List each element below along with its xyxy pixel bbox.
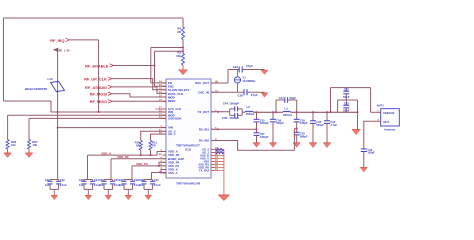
wire RF_UP_CLK xyxy=(112,79,166,90)
wire C43 upper stub xyxy=(345,100,347,105)
wire B2 upper xyxy=(272,112,274,119)
svg-text:ASK/OOK: ASK/OOK xyxy=(168,117,182,121)
capacitor pair C27 C28 xyxy=(124,179,133,181)
ground R67 xyxy=(25,153,33,158)
wire jog right at y=101 xyxy=(4,100,52,102)
wire VSS bus vertical xyxy=(223,150,225,196)
svg-text:RF_MISO: RF_MISO xyxy=(90,99,107,104)
wire R3 to power arrow xyxy=(182,65,184,70)
wire C44 C46 join right xyxy=(241,109,243,115)
wire R66 to ground xyxy=(7,149,9,153)
svg-text:VDD_RF: VDD_RF xyxy=(117,155,129,159)
svg-text:1uF: 1uF xyxy=(99,183,104,187)
wire OSC_IN row xyxy=(211,91,244,93)
svg-text:TRF7970ARGVR: TRF7970ARGVR xyxy=(176,181,201,185)
wire top net from frame corner to R4 xyxy=(4,17,184,19)
wire loop top left xyxy=(276,99,285,101)
svg-text:RF_IRQ: RF_IRQ xyxy=(50,38,64,43)
wire inner loop right xyxy=(357,100,359,112)
wire VDD_A bus xyxy=(88,154,158,156)
junction node EN2 xyxy=(182,50,184,52)
svg-text:680pF: 680pF xyxy=(300,135,308,139)
connector ANT1 box xyxy=(381,109,400,126)
resistor R9 on AG stub xyxy=(216,151,224,154)
wire C37 upper stub xyxy=(345,88,347,92)
svg-text:RX_IN1: RX_IN1 xyxy=(199,127,210,131)
wire R10 to VDD_A bus xyxy=(140,150,142,155)
ground B3 xyxy=(293,143,300,148)
wire B1 upper xyxy=(256,112,258,119)
junction R10 xyxy=(140,154,142,156)
wire R4 to node xyxy=(182,40,184,54)
wire B1 lower xyxy=(256,135,258,142)
wire RF_ENABLE xyxy=(114,65,155,67)
wire IRQ bus xyxy=(51,111,166,113)
capacitor C35 xyxy=(254,118,260,120)
ground crystal top xyxy=(261,70,268,74)
ground antenna node xyxy=(352,130,361,135)
junction ground drop xyxy=(357,111,359,113)
svg-text:RF_UP_CLK: RF_UP_CLK xyxy=(84,77,107,82)
svg-text:100pF: 100pF xyxy=(367,151,375,155)
resistor R3 xyxy=(182,54,185,66)
ground B2 xyxy=(270,143,277,148)
wire EN2 rail to pin xyxy=(155,85,167,87)
svg-text:1uF: 1uF xyxy=(79,183,84,187)
svg-text:4.7pF: 4.7pF xyxy=(330,123,337,127)
capacitor C44 xyxy=(234,106,236,111)
U1 left pin stubs and numbers xyxy=(163,82,167,84)
svg-text:C37: C37 xyxy=(344,88,350,92)
junction RF_ENABLE to EN2 rail xyxy=(154,65,156,67)
wire R66 stub xyxy=(7,115,9,139)
capacitor C34 xyxy=(238,67,240,73)
wire B2 lower xyxy=(272,122,274,143)
wire C43 lower stub xyxy=(345,108,347,112)
svg-text:2: 2 xyxy=(377,117,379,121)
wire RX_IN1 xyxy=(211,128,257,130)
resistor R67 xyxy=(28,140,31,150)
svg-text:C29: C29 xyxy=(139,178,144,182)
wire B1 middle xyxy=(256,122,258,133)
wire inner loop top xyxy=(338,99,358,101)
capacitor C45 xyxy=(294,131,300,133)
ground B5 xyxy=(323,143,331,148)
junction BAND_GAP xyxy=(158,165,160,167)
wire VDD_X drop to C pair5 xyxy=(151,173,153,180)
svg-text:VDD_PA: VDD_PA xyxy=(136,162,149,166)
wire RF_IRQ horizontal xyxy=(70,39,99,41)
junction RX_IN1 tap xyxy=(256,128,258,130)
svg-text:450nH: 450nH xyxy=(246,112,255,116)
svg-text:C27: C27 xyxy=(119,178,124,182)
wire EN rail to pin xyxy=(151,82,166,84)
wire main line after L2 xyxy=(253,111,283,113)
vertical EN2 rail xyxy=(154,51,156,86)
svg-text:TX_PA2: TX_PA2 xyxy=(199,169,209,173)
wire RF_1_8V vertical rail xyxy=(57,52,59,180)
wire outer loop top xyxy=(331,87,371,89)
capacitor pair C25 C26 xyxy=(104,179,113,181)
pin 1 FEED IN stub xyxy=(377,111,381,113)
wire to antenna feed xyxy=(371,111,377,113)
wire node to EN2 rail xyxy=(155,50,184,52)
wire MOD bus xyxy=(8,114,166,116)
wire outer loop left xyxy=(330,88,332,113)
wire VDD_PA bus xyxy=(132,165,166,167)
svg-text:RX_IN2: RX_IN2 xyxy=(199,139,210,143)
wire ASKOOK bus xyxy=(29,117,166,119)
ground C38 xyxy=(360,168,367,173)
wire node to EN rail xyxy=(151,47,183,49)
svg-text:RF_MOSI: RF_MOSI xyxy=(90,92,107,97)
wire B3 lower xyxy=(296,135,298,143)
wire B4 upper xyxy=(312,112,314,121)
wire TX_OUT xyxy=(211,111,230,113)
wire C38 to ground xyxy=(363,152,365,168)
svg-text:BEAD FERRITE: BEAD FERRITE xyxy=(25,87,47,91)
wire RF_MOSI xyxy=(112,94,166,97)
wire B3 upper xyxy=(296,112,298,119)
junction R11 xyxy=(150,154,152,156)
svg-text:L2: L2 xyxy=(247,105,251,109)
wire into R4 xyxy=(182,18,184,27)
svg-text:1uF: 1uF xyxy=(119,183,124,187)
capacitor C43 xyxy=(343,104,349,106)
svg-text:220nH: 220nH xyxy=(283,113,292,117)
junction node EN xyxy=(182,47,184,49)
ground crystal bottom xyxy=(261,93,268,97)
capacitor pair C21 C22 xyxy=(50,179,59,181)
svg-text:1000pF: 1000pF xyxy=(229,116,239,120)
pin 2 OUT stub xyxy=(377,120,381,122)
wire VDD_X stub xyxy=(161,170,166,173)
svg-text:AG_1: AG_1 xyxy=(168,132,176,136)
inductor L2 xyxy=(245,111,253,112)
wire crystal left rail xyxy=(227,70,229,84)
svg-text:C47: C47 xyxy=(279,96,285,100)
svg-text:C23: C23 xyxy=(79,178,84,182)
svg-text:OSC_OUT: OSC_OUT xyxy=(195,81,209,85)
wire VDD_RF bus xyxy=(111,158,166,160)
svg-text:RF_1_8V: RF_1_8V xyxy=(59,48,70,52)
wire loop top right xyxy=(288,99,297,101)
capacitor C33 xyxy=(324,120,330,122)
svg-text:1uF: 1uF xyxy=(45,183,50,187)
wire OUT to C38 shunt xyxy=(364,121,377,149)
svg-text:13.56MHz: 13.56MHz xyxy=(242,79,256,83)
svg-text:OSC_IN: OSC_IN xyxy=(198,90,209,94)
wire BAND_GAP stub xyxy=(159,162,166,166)
svg-text:MISO: MISO xyxy=(168,99,176,103)
wires VSS pin stubs xyxy=(211,149,224,151)
wire SYS_CLK stub pink xyxy=(155,108,166,110)
wire R67 stub xyxy=(28,118,30,139)
junction VIN rail xyxy=(57,127,59,129)
svg-text:C21: C21 xyxy=(45,178,50,182)
U1 right pin stubs and numbers xyxy=(211,82,215,84)
resistor R10 xyxy=(139,141,142,151)
junction B5 xyxy=(326,111,328,113)
svg-text:C36: C36 xyxy=(222,116,228,120)
resistor R11 xyxy=(149,141,152,151)
svg-text:1: 1 xyxy=(377,108,379,112)
junction bead rail on IRQ bus xyxy=(57,111,59,113)
resistor R66 xyxy=(6,140,9,150)
wire loop left xyxy=(275,100,277,112)
wire VIN bus xyxy=(58,127,166,129)
inductor L10 bead ferrite xyxy=(51,81,65,91)
wire to L2 xyxy=(242,111,245,113)
wire main to ground drop xyxy=(357,112,359,129)
wire B5 lower xyxy=(326,123,328,142)
svg-text:Antenna: Antenna xyxy=(384,127,396,131)
capacitor C37 xyxy=(343,90,349,92)
svg-text:C34: C34 xyxy=(233,65,239,69)
svg-text:0.1uF: 0.1uF xyxy=(154,183,161,187)
wire B4 lower xyxy=(312,123,314,142)
svg-text:120pF: 120pF xyxy=(300,121,308,125)
op-amp U1 TRF7970A body xyxy=(166,79,211,178)
wire main line after L3 xyxy=(290,111,357,113)
svg-text:U1A: U1A xyxy=(185,148,192,152)
junction B4 xyxy=(312,111,314,113)
wire R67 to ground xyxy=(28,149,30,153)
wire C44 branch xyxy=(230,108,235,110)
wire VDD_PA drop to C pair4 xyxy=(131,166,133,180)
ground VSS bus xyxy=(218,195,229,201)
svg-text:10k: 10k xyxy=(176,54,181,58)
svg-text:C31: C31 xyxy=(154,178,159,182)
wire inner loop left xyxy=(337,100,339,112)
wire loop right xyxy=(296,100,298,112)
svg-text:L3: L3 xyxy=(284,106,288,110)
svg-text:VDD_A: VDD_A xyxy=(101,151,112,155)
capacitor C46 xyxy=(234,113,236,118)
resistor R8 on AG stub xyxy=(216,148,224,151)
svg-text:RF_ATBDIG: RF_ATBDIG xyxy=(85,85,107,90)
capacitor C30 xyxy=(294,118,300,120)
wire C44 C46 split left xyxy=(229,109,231,115)
wire RF_ATBDIG xyxy=(112,87,166,94)
wire left frame vertical xyxy=(3,18,5,101)
ground B4 xyxy=(309,143,317,148)
wire C46 branch xyxy=(230,114,235,116)
svg-text:1000pF: 1000pF xyxy=(229,101,239,105)
wire B5 upper xyxy=(326,112,328,121)
svg-text:C43: C43 xyxy=(344,102,350,106)
junction loop right xyxy=(296,111,298,113)
svg-text:32: 32 xyxy=(159,152,162,156)
wire B3 middle xyxy=(296,122,298,132)
wire RF_IRQ vertical xyxy=(98,40,100,112)
wire VDD_RF drop to C pair3 xyxy=(110,159,112,180)
svg-text:0R: 0R xyxy=(136,143,139,147)
wire crystal top left xyxy=(228,69,239,71)
wire AG_2 stair xyxy=(141,131,166,140)
capacitor C32 xyxy=(310,120,316,122)
crystal Y1 xyxy=(237,70,239,77)
wire OSC_IN right xyxy=(247,91,265,93)
junction RX_IN1 stub xyxy=(217,128,219,130)
wire RX_IN2 xyxy=(211,129,297,151)
power symbol RF_1_8V xyxy=(53,48,58,52)
wire AG_1 stair xyxy=(151,134,167,140)
wire crystal top right xyxy=(242,69,264,71)
wire C37 lower stub xyxy=(345,94,347,100)
svg-text:1200pF: 1200pF xyxy=(260,121,269,125)
svg-text:10k: 10k xyxy=(11,143,16,147)
svg-text:0R: 0R xyxy=(152,143,155,147)
wire outer loop right xyxy=(370,88,372,113)
svg-text:C36: C36 xyxy=(237,94,243,98)
svg-text:TX_OUT: TX_OUT xyxy=(198,110,210,114)
svg-text:0R: 0R xyxy=(177,30,182,34)
svg-text:27pF: 27pF xyxy=(251,93,258,97)
junction loop left xyxy=(275,111,277,113)
capacitor C36 xyxy=(243,89,245,95)
svg-text:RF_ENABLE: RF_ENABLE xyxy=(85,63,109,68)
svg-text:L10: L10 xyxy=(48,77,53,81)
capacitor C38 xyxy=(270,118,276,120)
junction RF_IRQ joins IRQ bus xyxy=(98,111,100,113)
svg-text:1uF: 1uF xyxy=(139,183,144,187)
svg-text:C44: C44 xyxy=(223,101,229,105)
svg-text:FEED IN: FEED IN xyxy=(383,111,394,115)
svg-text:VSS_A: VSS_A xyxy=(168,171,178,175)
svg-text:27pF: 27pF xyxy=(246,64,253,68)
junction VDD_X xyxy=(160,172,162,174)
wire R11 to VDD_A bus xyxy=(150,150,152,155)
wire VDD_X bus xyxy=(152,172,167,174)
capacitor pair C23 C24 xyxy=(84,179,93,181)
power arrow VDD down xyxy=(179,70,188,75)
resistor R4 xyxy=(182,27,185,40)
junction B2 xyxy=(272,111,274,113)
junction B1 xyxy=(256,111,258,113)
svg-text:ANT1: ANT1 xyxy=(377,103,385,107)
svg-text:C25: C25 xyxy=(99,178,104,182)
wire VDD_A drop to C pair2 xyxy=(87,155,89,179)
svg-text:C22: C22 xyxy=(60,178,65,182)
svg-text:10k: 10k xyxy=(32,143,37,147)
svg-text:560pF: 560pF xyxy=(316,123,324,127)
svg-text:1200pF: 1200pF xyxy=(260,135,269,139)
junction outer loop xyxy=(330,111,332,113)
wire jog down at x=51 xyxy=(50,101,52,112)
svg-text:560pF: 560pF xyxy=(276,121,284,125)
capacitor pair C29 C31 xyxy=(144,179,153,181)
wire RF_MISO xyxy=(112,100,166,102)
ground B1 xyxy=(253,143,260,148)
svg-text:0.1uF: 0.1uF xyxy=(60,183,67,187)
capacitor C37b xyxy=(254,132,260,134)
vertical EN rail xyxy=(150,48,152,83)
junction TX_OUT xyxy=(217,111,219,113)
capacitor C47 xyxy=(284,97,286,103)
wire OSC_OUT xyxy=(211,82,228,84)
junction RX_IN2 tap xyxy=(296,128,298,130)
ground R66 xyxy=(4,153,12,158)
capacitor C38b xyxy=(361,148,367,150)
svg-text:OUT: OUT xyxy=(383,120,389,124)
inductor L3 xyxy=(283,110,290,113)
